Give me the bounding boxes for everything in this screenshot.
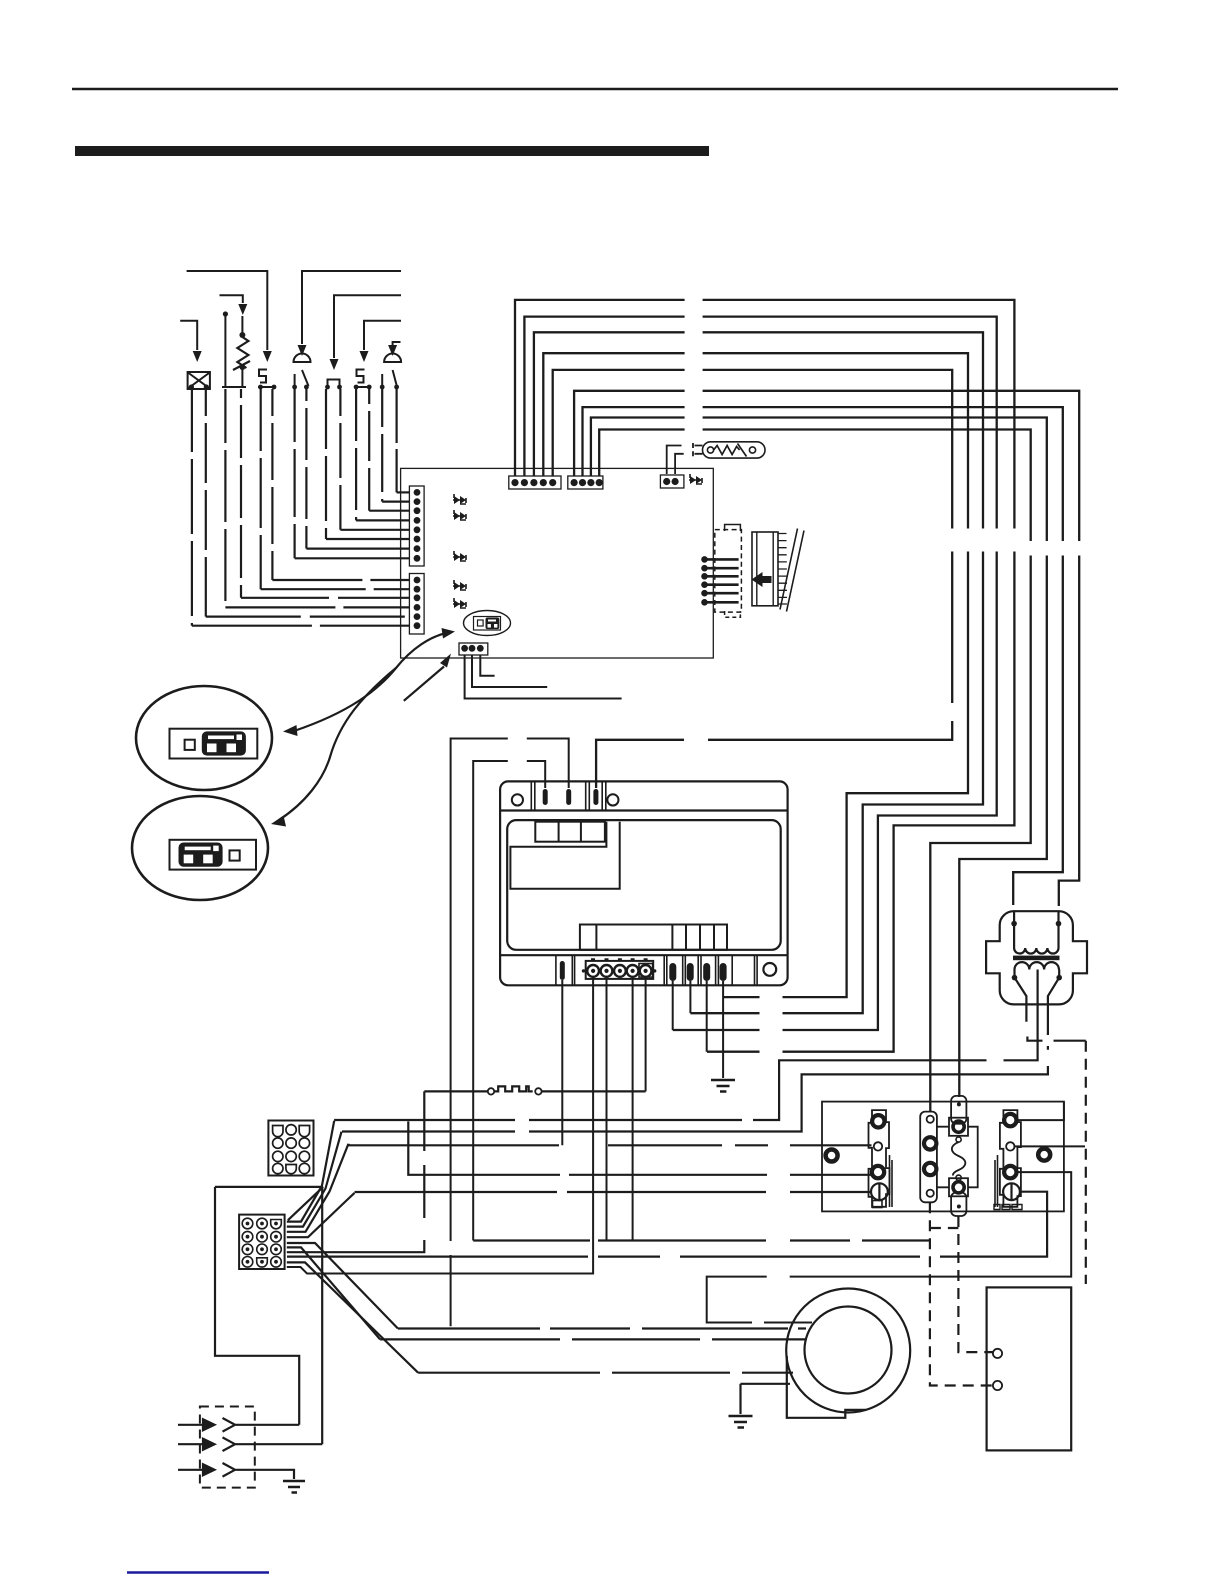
SECTION: callouts: [132, 628, 455, 900]
wire B1 pin to transformer primary right: [574, 391, 1079, 906]
left pin strip J1: [409, 486, 424, 566]
motor feed diagonal B: [287, 1243, 398, 1329]
SECTION: midwires: [287, 1086, 1047, 1256]
breaker right terminal mid: [1004, 1166, 1016, 1178]
wire S2-a to board pin: [355, 389, 357, 520]
crossing gap band right verticals group A: [944, 529, 1020, 552]
blower control board U2 outline: [500, 781, 787, 985]
plug pair row 3: [178, 1464, 215, 1475]
wire A3 pin to spade3 loop: [534, 332, 983, 1013]
spade terminal top 1: [543, 789, 548, 805]
wire door-a to board pin: [325, 389, 327, 539]
fan wire 4 to left breaker screw: [355, 1191, 872, 1193]
wire FS1-b to board pin: [305, 389, 307, 549]
breaker right screw: [1003, 1183, 1020, 1200]
motor feed wire D: [418, 1372, 793, 1374]
heater resistor HTR left lead: [424, 1090, 488, 1092]
flame switch FS2: [384, 354, 401, 363]
wire spade B4 down to A1 loop: [706, 981, 708, 1052]
breaker left screw: [871, 1183, 888, 1200]
top band separators: [531, 781, 606, 810]
spade terminal bottom 5: [720, 963, 727, 981]
primary lead left: [1013, 911, 1015, 948]
secondary lead right: [342, 970, 1059, 1132]
harness outline wire right drop: [321, 1187, 323, 1444]
crossing gaps on lower jog horizontals: [760, 991, 783, 1057]
motor label marks: [994, 1205, 1022, 1210]
arrowhead L3: [238, 304, 247, 315]
heater resistor HTR right terminal: [535, 1088, 541, 1094]
fuse F1 bottom cap: [951, 1193, 966, 1217]
arrowhead L4: [330, 359, 339, 370]
wire right breaker top out: [1017, 1102, 1064, 1121]
wire spade B3 down to A3 loop: [689, 981, 691, 1013]
ground G1: [711, 1080, 735, 1092]
wire A5 pin to blower pin3: [553, 370, 953, 788]
SECTION: nest: [515, 292, 1085, 1112]
wire terminal4 down: [632, 977, 634, 1241]
LED D4: [453, 580, 466, 590]
spade terminal bottom 1: [560, 961, 565, 980]
fan wire 3 kink: [287, 1144, 349, 1232]
motor feed diagonal C: [287, 1247, 380, 1339]
SECTION: fusepanel: [707, 1096, 1085, 1328]
riser to breaker wire: [408, 1121, 871, 1174]
crossing gap on wire A5 vertical: [946, 703, 958, 721]
callout curve to ellipse 1: [294, 633, 446, 731]
motor feed wire C: [380, 1338, 806, 1340]
accessory box: [987, 1287, 1072, 1450]
fan wire 4 kink: [287, 1193, 355, 1237]
crossing gap on pin2 drop vertical: [447, 1241, 454, 1255]
wire FS2-b to board pin: [396, 389, 398, 492]
fuse F1 top clip: [949, 1118, 968, 1136]
SECTION: bottomleft: [178, 1121, 418, 1493]
wire GV-a to board pin: [191, 389, 193, 626]
motor feed diagonal D: [287, 1262, 418, 1372]
bottom band separators: [556, 955, 757, 985]
wire feed L2 to flame switch FS1: [302, 271, 401, 344]
edge connector dashed housing: [715, 530, 742, 613]
bottom band line: [500, 954, 787, 956]
wire heater left drop to connector: [287, 1091, 425, 1252]
3-pin header J3: [459, 643, 488, 655]
fan wire 3 to left breaker sense: [349, 1144, 872, 1146]
wire A2 pin to spade2 loop: [524, 317, 996, 1030]
field wiring dashed right drop: [1085, 1041, 1087, 1284]
fuse bypass loop: [937, 1127, 978, 1188]
breaker mid body: [920, 1112, 937, 1203]
heater resistor HTR left terminal: [488, 1088, 494, 1094]
crossing gap on loweder secondary horizontal: [1043, 1035, 1054, 1046]
wire A1 pin to spade4 loop: [515, 300, 1014, 1052]
fuse F1 bottom clip: [949, 1178, 968, 1196]
wire spade B1 down: [561, 980, 563, 1145]
spade terminal bottom 3: [687, 963, 694, 981]
SECTION: sensors: [180, 271, 401, 390]
door switch: [328, 380, 340, 388]
blower motor scroll: [787, 1356, 866, 1418]
mounting hole left: [826, 1150, 838, 1162]
relay step outline: [510, 822, 619, 889]
spade terminal bottom 4: [703, 963, 710, 981]
crossing gap band right verticals group B: [1024, 541, 1085, 556]
LED D6 beside header C: [689, 474, 702, 484]
SECTION: motor: [380, 1041, 1086, 1451]
wire GV-b to board pin: [205, 389, 207, 617]
secondary lead left: [1015, 970, 1086, 1041]
screw terminal block TB1: [586, 961, 654, 979]
wire FS1-a to board pin: [294, 389, 296, 558]
wire FS2-a to board pin: [381, 389, 383, 502]
plug pair row 1: [178, 1419, 215, 1430]
ignition control board outline U1: [401, 468, 714, 658]
wire comb of plug: [778, 534, 787, 605]
lower component row: [580, 925, 727, 950]
page rule top: [72, 88, 1118, 90]
arrowhead L7: [388, 345, 397, 356]
breaker left terminal top: [872, 1115, 884, 1127]
wire feed L7 to flame switch FS2: [393, 342, 401, 345]
callout curve to ellipse 2: [279, 668, 396, 820]
ground G2: [739, 1384, 741, 1414]
gas valve GV: [188, 372, 210, 389]
wire R-a to board pin: [224, 389, 226, 607]
harness outline wire left: [215, 1187, 323, 1425]
plug pair row 2: [178, 1439, 215, 1450]
heater resistor HTR right lead to terminal5: [542, 1090, 646, 1092]
mounting hole top mid: [607, 794, 618, 805]
arrowhead L6: [360, 351, 369, 362]
wire pin1-drop across to field dashed riser: [473, 1239, 930, 1241]
fuse panel outline: [822, 1102, 1064, 1212]
SECTION: board: [401, 442, 804, 658]
breaker right terminal top: [1004, 1114, 1016, 1126]
switch S2 glyph: [357, 370, 365, 383]
LED D2: [453, 510, 466, 520]
edge connector pins P1: [701, 556, 708, 605]
breaker mid terminals: [927, 1116, 934, 1123]
heater resistor HTR element: [494, 1086, 533, 1091]
crossing gap on wire A5 horizontal: [684, 733, 708, 746]
ground G3: [283, 1481, 305, 1493]
wire S1-b to board pin: [271, 389, 273, 580]
switch S1 glyph: [259, 370, 267, 383]
LED D1: [453, 494, 466, 504]
wire feed L4 to door switch: [334, 295, 401, 358]
detail ellipse 1: [136, 686, 272, 790]
mounting hole bottom right: [763, 963, 776, 976]
field wiring dashed from breaker mid: [930, 1202, 993, 1385]
crossing gaps on motor loop: [767, 1270, 790, 1282]
spade terminal bottom 2: [669, 963, 676, 981]
crossing gaps on center tap horizontal: [987, 1054, 1004, 1066]
accessory terminal 1: [993, 1349, 1002, 1358]
mounting hole top left: [512, 794, 523, 805]
SECTION: blower: [287, 655, 788, 1326]
insertion arrow: [752, 572, 772, 587]
harness slant lines: [780, 529, 804, 612]
relay block 3 cells: [535, 822, 605, 842]
LED D5: [453, 598, 466, 608]
wire spade B5 down to ground G1: [722, 981, 724, 1078]
wire B4 pin to breaker mid top: [599, 430, 1030, 1113]
wire B2 pin to transformer primary left: [583, 407, 1063, 905]
crossing gap on left secondary at centertap: [1042, 1055, 1053, 1067]
wire S2-b to board pin: [368, 389, 370, 511]
section title bar: [75, 146, 709, 156]
detail ellipse 2: [132, 796, 268, 900]
fan wire 1 kink: [287, 1121, 334, 1222]
fuse F1 top cap: [951, 1096, 966, 1124]
transformer T1 body outline: [986, 911, 1087, 1004]
12-pin connector P2 (plug view): [268, 1121, 313, 1176]
SECTION: lwires: [192, 389, 410, 626]
blower motor housing: [786, 1289, 910, 1413]
breaker right body: [1000, 1110, 1021, 1207]
wire B3 pin to fuse top: [591, 418, 1047, 1098]
wire right breaker sense out: [1015, 1145, 1086, 1147]
spade terminal top 2: [566, 789, 571, 805]
wire A4 pin to ground junction: [543, 353, 968, 997]
motor ground wire: [741, 1383, 791, 1385]
breaker left body: [869, 1110, 890, 1207]
mounting hole right: [1038, 1149, 1050, 1161]
top pin header C: [660, 475, 684, 488]
fuse F1 wire: [956, 1137, 961, 1142]
wire feed L1 to switch S1: [187, 271, 268, 350]
stub wires from 3-pin header J3: [465, 655, 622, 699]
wire terminal1 down and left: [287, 977, 593, 1274]
fan wire 2 kink: [287, 1132, 342, 1227]
flame sensor lead assembly (resistor in capsule): [667, 446, 682, 475]
wire terminal2 down: [606, 977, 608, 1241]
crossing gap pin2 horizontal: [508, 732, 527, 745]
crossing gaps on heater drop vertical: [421, 1151, 428, 1165]
inner board outline: [507, 820, 781, 950]
breaker left sense: [874, 1142, 882, 1150]
wire R-b to board pin: [240, 389, 242, 598]
flame switch FS1: [294, 354, 311, 363]
wire terminal5 down to heater: [645, 977, 647, 1091]
secondary center tap: [334, 970, 1038, 1121]
left pin strip J2: [409, 574, 424, 635]
secondary coil: [1014, 962, 1058, 969]
top pin header B: [568, 476, 603, 489]
motor feed wire B: [398, 1327, 806, 1329]
breaker left terminal mid: [872, 1166, 884, 1178]
wire spade B2 down to A2 loop: [672, 981, 674, 1030]
SECTION: transformer: [334, 911, 1087, 1131]
crossing gap in nest horizontals: [685, 292, 703, 436]
12-pin connector P3 (receptacle view): [239, 1215, 285, 1269]
arrowhead L5: [193, 351, 202, 362]
field wiring dashed jog: [930, 1227, 959, 1229]
arrowhead L2: [298, 345, 307, 356]
wire blower pin1 to left drop: [473, 761, 545, 1241]
accessory terminal 2: [993, 1381, 1002, 1390]
wire feed L6 to switch S2: [364, 321, 401, 350]
field wiring dashed from fuse: [958, 1216, 993, 1352]
spade terminal top 3: [593, 789, 598, 805]
limit resistor R: [224, 313, 226, 387]
mating plug body: [752, 532, 778, 606]
top pin header A: [509, 476, 561, 489]
LED D3: [453, 551, 466, 561]
core bar: [1013, 956, 1060, 961]
wire feed L5 to gas valve: [180, 321, 197, 350]
blower motor body: [805, 1307, 892, 1394]
arrowhead L1: [263, 351, 272, 362]
footer link line: [127, 1571, 269, 1574]
breaker right sense: [1006, 1142, 1014, 1150]
crossing gap pin1 horizontal: [508, 755, 527, 767]
top band line: [500, 809, 787, 811]
wire blower pin2 to left drop: [451, 739, 569, 1327]
crossing gaps on Z1 Z2 horizontals: [515, 1114, 529, 1138]
primary lead right: [1057, 911, 1059, 948]
wire S1-a to board pin: [260, 389, 262, 589]
wire door-b to board pin: [339, 389, 341, 530]
wire right breaker mid to motor loop: [707, 1172, 1071, 1322]
primary coil: [1014, 948, 1058, 954]
wire connector to right breaker screw: [287, 1192, 1047, 1257]
jumper oval on board: [464, 611, 511, 636]
field connector dashed box: [200, 1407, 255, 1488]
callout straight arrow to 3-pin header: [404, 667, 444, 701]
harness outline diagonal into connector: [288, 1187, 323, 1220]
wire feed L3 to limit resistor: [220, 295, 243, 303]
